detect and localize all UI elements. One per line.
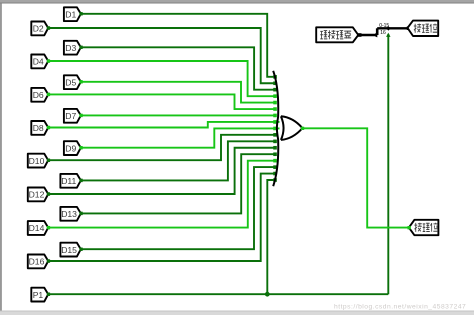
pin 5 dot xyxy=(273,101,277,105)
tunnel D10 xyxy=(28,154,48,168)
splitter main leg xyxy=(372,32,377,37)
wire D14 (tunnel D14 to XOR pin 14) xyxy=(48,161,276,228)
wire D5 (tunnel D5 to XOR pin 5) xyxy=(81,82,276,103)
svg-text:D9: D9 xyxy=(65,143,76,153)
left window border xyxy=(0,3,2,311)
tunnel D13 xyxy=(60,207,80,221)
tunnel D2 xyxy=(31,22,48,36)
tunnel D5 xyxy=(64,75,81,89)
wire-end dot P1 xyxy=(47,293,50,296)
wire-end dot at tunnel 检错位 tip (over tip) xyxy=(408,226,411,229)
wire D11 (tunnel D11 to XOR pin 11) xyxy=(81,141,276,180)
wire-end dot D8 xyxy=(47,126,50,129)
wire-end dot at tunnel D15 tip xyxy=(79,248,82,251)
tunnel D15 xyxy=(60,243,80,257)
wire-end dot at tunnel D8 tip xyxy=(47,126,50,129)
wire D2 (tunnel D2 to XOR pin 2) xyxy=(48,28,276,83)
wire-end dot at tunnel D9 tip xyxy=(79,146,82,149)
XOR gate U1 back curve xyxy=(281,116,284,140)
wire D15 (tunnel D15 to XOR pin 15) xyxy=(81,167,276,249)
svg-text:D5: D5 xyxy=(65,77,76,87)
wire-end dot D3 xyxy=(79,46,82,49)
wire-end dot D2 xyxy=(47,26,50,29)
svg-text:D12: D12 xyxy=(29,190,45,200)
splitter bit-16 arrow stub xyxy=(386,33,390,37)
svg-text:D15: D15 xyxy=(61,245,77,255)
junction on P1 net xyxy=(265,292,270,297)
svg-text:D4: D4 xyxy=(33,57,44,67)
wire-end dot at tunnel P1 tip xyxy=(47,293,50,296)
tunnel D4 xyxy=(31,55,48,69)
wire splitter bit-16 riser (parity bit down right side) xyxy=(387,34,389,294)
pin 6 dot xyxy=(273,107,277,111)
wire-end dot at tunnel D3 tip xyxy=(79,46,82,49)
tunnel D16 xyxy=(28,255,48,269)
wire-end dot D7 xyxy=(79,114,82,117)
wire P1 branch up to XOR pin 17 xyxy=(267,180,276,294)
tunnel D11 xyxy=(60,174,80,188)
wire-end dot at tunnel D2 tip xyxy=(47,26,50,29)
wire-end dot D5 xyxy=(79,80,82,83)
pin 1 dot xyxy=(273,75,277,79)
wire-end dot at tunnel D12 tip xyxy=(47,192,50,195)
wire-end dot at tunnel D14 tip xyxy=(47,226,50,229)
wire-end dot at tunnel D1 tip xyxy=(79,12,82,15)
wire-end dot D6 xyxy=(47,93,50,96)
wire-end dot at tunnel D6 tip xyxy=(47,93,50,96)
tunnel D9 xyxy=(64,141,81,155)
bottom window border xyxy=(0,311,474,315)
wire-end dot at 检错位 xyxy=(408,226,411,229)
bus wire 偶校验码 to splitter xyxy=(358,34,374,37)
pin 3 dot xyxy=(273,88,277,92)
pin 17 dot xyxy=(273,178,277,182)
tunnel D6 xyxy=(31,88,48,102)
wire-end dot D11 xyxy=(79,179,82,182)
wire D6 (tunnel D6 to XOR pin 6) xyxy=(48,94,276,109)
wire-end dot D1 xyxy=(79,12,82,15)
tunnel 检错位 xyxy=(409,220,439,235)
wire D7 (tunnel D7 straight to XOR pin 7) xyxy=(81,114,276,116)
wire D9 (tunnel D9 to XOR pin 9) xyxy=(81,128,280,147)
wire XOR output to tunnel 检错位 xyxy=(302,128,409,227)
tunnel D8 xyxy=(31,121,48,135)
svg-text:D11: D11 xyxy=(61,176,76,186)
svg-text:D7: D7 xyxy=(65,111,76,121)
pin 12 dot xyxy=(273,146,277,150)
splitter spine xyxy=(376,28,379,35)
svg-text:P1: P1 xyxy=(33,290,44,300)
tunnel D3 xyxy=(64,41,81,55)
wire-end dot D10 xyxy=(47,159,50,162)
wire-end dot at tunnel D13 tip xyxy=(79,212,82,215)
svg-text:D3: D3 xyxy=(65,43,76,53)
svg-text:https://blog.csdn.net/weixin_4: https://blog.csdn.net/weixin_45837247 xyxy=(334,303,466,310)
svg-text:16: 16 xyxy=(380,30,386,36)
svg-text:D14: D14 xyxy=(29,223,45,233)
tunnel 偶校验码 xyxy=(316,27,358,42)
wire-end dot XOR output xyxy=(301,127,304,130)
bus wire-end dot at 偶校验码 xyxy=(358,33,362,37)
tunnel D12 xyxy=(28,188,48,202)
tunnel D7 xyxy=(64,109,81,123)
svg-text:0-15: 0-15 xyxy=(379,23,389,29)
pin 2 dot xyxy=(273,81,277,85)
tunnel D14 xyxy=(28,221,48,235)
wire-end dot at tunnel D11 tip xyxy=(79,179,82,182)
svg-text:D13: D13 xyxy=(61,209,77,219)
wire-end dot D15 xyxy=(79,248,82,251)
svg-text:D10: D10 xyxy=(29,156,45,166)
svg-text:D2: D2 xyxy=(33,24,44,34)
wire-end dot D13 xyxy=(79,212,82,215)
bus wire-end dot at 数据位 xyxy=(407,26,411,30)
pin 13 dot xyxy=(273,152,277,156)
splitter 0-15 leg xyxy=(386,26,391,30)
XOR gate U1 input extension curve (continuous double-back line) xyxy=(273,71,278,186)
wire D13 (tunnel D13 to XOR pin 13) xyxy=(81,154,276,213)
pin 7 dot xyxy=(273,114,277,118)
pin 8 dot xyxy=(273,120,277,124)
wire-end dot D9 xyxy=(79,146,82,149)
wire D8 (tunnel D8 to XOR pin 8) xyxy=(48,122,279,128)
wire-end dot at tunnel D5 tip xyxy=(79,80,82,83)
pin 15 dot xyxy=(273,165,277,169)
svg-text:D6: D6 xyxy=(33,90,44,100)
svg-text:D16: D16 xyxy=(29,257,45,267)
wire-end dot at tunnel D16 tip xyxy=(47,259,50,262)
pin 4 dot xyxy=(273,94,277,98)
wire-end dot D16 xyxy=(47,259,50,262)
wire D10 (tunnel D10 to XOR pin 10) xyxy=(48,135,276,160)
wire D16 (tunnel D16 to XOR pin 16) xyxy=(48,174,276,261)
bus wire splitter 0-15 branch to tunnel 数据位 xyxy=(377,27,407,29)
tunnel 数据位 xyxy=(408,21,439,36)
pin 10 dot xyxy=(273,133,277,137)
wire-end dot D12 xyxy=(47,192,50,195)
tunnel P1 xyxy=(31,288,48,302)
wire-end dot D4 xyxy=(47,59,50,62)
wire P1 bottom run (tunnel P1 to splitter bit-16 riser) xyxy=(48,293,388,295)
svg-text:D8: D8 xyxy=(33,123,44,133)
wire D4 (tunnel D4 to XOR pin 4) xyxy=(48,61,276,96)
pin 14 dot xyxy=(273,159,277,163)
wire-end dot at tunnel D10 tip xyxy=(47,159,50,162)
wire-end dot at tunnel D4 tip xyxy=(47,59,50,62)
tunnel D1 xyxy=(64,7,81,21)
top window border xyxy=(0,0,474,3)
pin 16 dot xyxy=(273,172,277,176)
svg-text:D1: D1 xyxy=(65,9,76,19)
wire-end dot at tunnel D7 tip xyxy=(79,114,82,117)
wire D12 (tunnel D12 to XOR pin 12) xyxy=(48,148,276,194)
XOR gate U1 body xyxy=(281,116,303,140)
wire D3 (tunnel D3 to XOR pin 3) xyxy=(81,47,276,89)
pin 11 dot xyxy=(273,140,277,144)
pin 9 dot xyxy=(273,127,277,131)
wire D1 (tunnel D1 to XOR pin 1) xyxy=(81,14,276,77)
wire-end dot D14 xyxy=(47,226,50,229)
